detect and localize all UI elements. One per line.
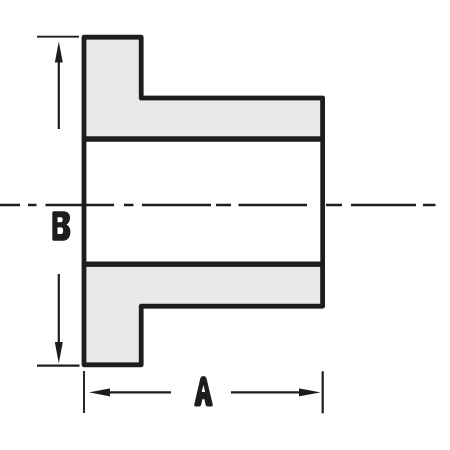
dim B top extension line [37,36,79,38]
dim A left arrow [89,388,171,396]
part silhouette: flanged bushing cross-section [84,37,323,365]
dim B lower arrow [55,274,63,364]
dim B bottom extension line [37,365,80,367]
dim A left extension line [83,371,85,413]
dim B upper arrow [55,42,63,130]
bore bottom line [84,262,323,267]
label B [52,211,70,241]
bore interior (white band) [87,142,321,262]
centerline (dash-dot axis) [0,204,436,206]
dim A right arrow [231,388,321,396]
label A [194,376,213,406]
dim A right extension line [322,371,324,413]
bore top line [84,136,323,141]
